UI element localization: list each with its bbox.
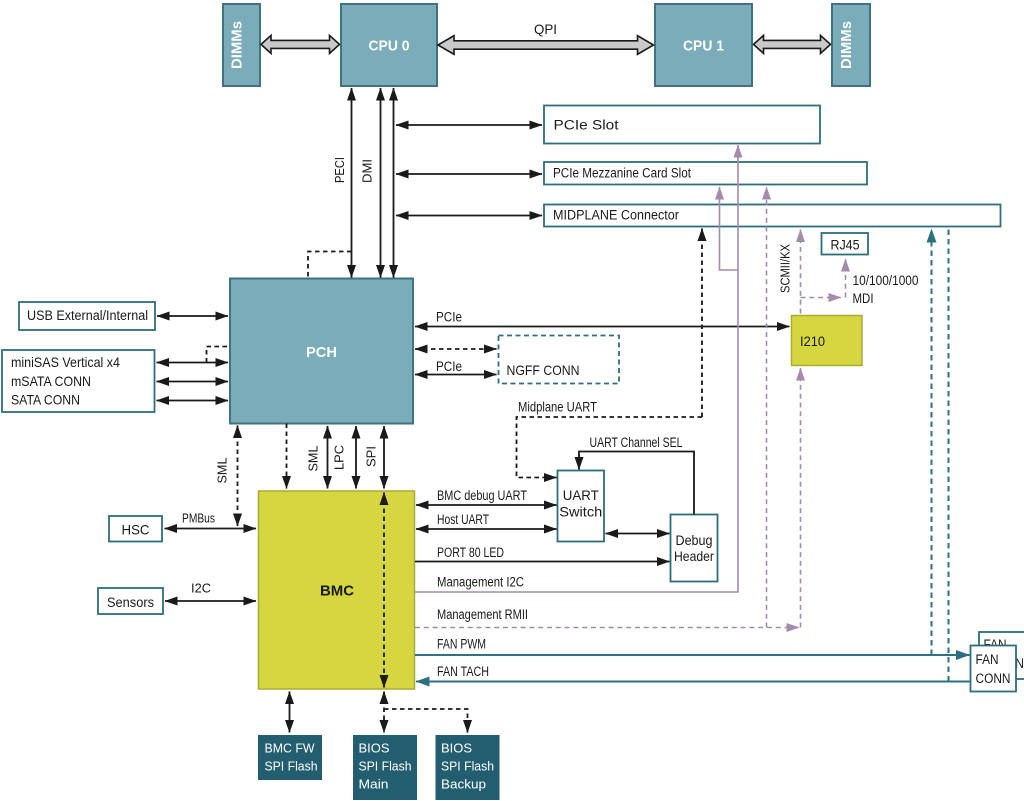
wire SML PCH-BMC — [306, 426, 328, 489]
svg-text:USB External/Internal: USB External/Internal — [27, 308, 148, 323]
wire SPI PCH-BMC — [364, 426, 385, 489]
wire SPI dashed BMC to BIOS flashes — [384, 692, 468, 733]
wire dashed PECI branch into PCH — [308, 252, 352, 278]
block HSC — [109, 516, 162, 542]
svg-text:I2C: I2C — [191, 581, 211, 596]
svg-text:SML: SML — [215, 458, 230, 484]
wire SML dashed PCH to PMBus node — [215, 426, 238, 527]
block PCIe Slot — [544, 106, 820, 144]
wire PCIe PCH-I210 — [415, 310, 790, 327]
svg-text:PORT 80 LED: PORT 80 LED — [437, 545, 504, 560]
wire FAN dashed to MIDPLANE 1 (teal) — [931, 229, 933, 655]
wire LPC PCH-BMC — [332, 426, 357, 489]
wire PCIe to Mezzanine slot — [396, 173, 542, 175]
svg-text:Main: Main — [359, 777, 389, 792]
wire UART Switch - Debug Header — [606, 533, 670, 535]
wire PCIe to PCIe Slot — [396, 124, 542, 126]
svg-text:BMC debug UART: BMC debug UART — [437, 488, 527, 503]
svg-text:Debug: Debug — [676, 532, 713, 548]
svg-text:PECI: PECI — [332, 157, 347, 183]
block miniSAS mSATA SATA CONN — [2, 350, 155, 412]
svg-text:DMI: DMI — [360, 159, 375, 183]
svg-text:FAN TACH: FAN TACH — [437, 664, 489, 679]
svg-text:BIOS: BIOS — [441, 741, 472, 756]
wire QPI CPU0-CPU1 (thick gray) — [438, 21, 654, 54]
block BMC FW SPI Flash — [258, 735, 322, 780]
svg-text:SATA CONN: SATA CONN — [11, 392, 80, 408]
block DIMMs right — [832, 4, 870, 86]
wire BMC debug UART — [416, 488, 557, 505]
wire dashed PCH-NGFF — [415, 348, 497, 350]
wire memory bus DIMMs-CPU0 (thick gray) — [261, 35, 340, 53]
svg-text:Sensors: Sensors — [107, 594, 154, 610]
wire Management RMII (mauve dashed) — [415, 187, 801, 628]
wire PORT 80 LED — [415, 545, 670, 562]
block CPU 1 — [655, 4, 752, 86]
wire PCIe PCH-NGFF — [415, 359, 497, 375]
svg-text:SPI: SPI — [364, 446, 379, 467]
block DIMMs left — [223, 4, 260, 86]
svg-text:DIMMs: DIMMs — [229, 21, 246, 69]
block BIOS SPI Flash Backup — [436, 735, 500, 800]
block BMC — [259, 491, 415, 689]
wire Management I2C (mauve) — [415, 145, 738, 592]
svg-text:CPU 0: CPU 0 — [369, 38, 410, 55]
svg-text:PCIe: PCIe — [436, 359, 462, 374]
wire SCMII/KX I210-MIDPLANE (mauve dashed) — [778, 230, 801, 314]
svg-text:Midplane UART: Midplane UART — [518, 400, 597, 415]
wire dashed PCH-BMC — [286, 424, 288, 489]
svg-text:Management RMII: Management RMII — [437, 607, 528, 622]
block PCIe Mezzanine Card Slot — [544, 162, 867, 185]
block BIOS SPI Flash Main — [353, 735, 417, 800]
svg-text:NGFF CONN: NGFF CONN — [507, 362, 580, 378]
wire FAN TACH (teal) — [416, 664, 971, 682]
block NGFF CONN — [499, 336, 620, 384]
block USB External/Internal — [19, 302, 155, 330]
svg-text:mSATA CONN: mSATA CONN — [11, 373, 91, 389]
svg-text:Management I2C: Management I2C — [437, 575, 524, 590]
wire miniSAS-PCH line 2 — [157, 381, 229, 383]
svg-text:Header: Header — [674, 548, 714, 564]
svg-text:Backup: Backup — [441, 777, 486, 792]
block RJ45 — [822, 233, 869, 255]
svg-text:PCIe Slot: PCIe Slot — [554, 118, 619, 133]
wire PCIe to MIDPLANE connector — [396, 215, 542, 217]
svg-text:HSC: HSC — [122, 522, 150, 538]
wire dashed miniSAS branch into PCH — [207, 347, 231, 363]
wire PMBus HSC-BMC — [165, 511, 257, 529]
svg-text:BMC FW: BMC FW — [265, 741, 316, 756]
svg-text:PCH: PCH — [306, 344, 337, 361]
wire DMI line 1 CPU0-PCH — [360, 88, 381, 278]
svg-text:Host UART: Host UART — [437, 512, 489, 527]
wire DMI line 2 CPU0-PCH — [393, 88, 395, 278]
block I210 — [792, 316, 863, 366]
wire Host UART — [416, 512, 557, 529]
svg-text:MIDPLANE Connector: MIDPLANE Connector — [553, 208, 679, 223]
wire memory bus CPU1-DIMMs (thick gray) — [754, 35, 831, 53]
svg-text:10/100/1000: 10/100/1000 — [853, 273, 919, 288]
svg-text:PCIe: PCIe — [436, 310, 462, 325]
block UART Switch — [558, 471, 605, 542]
svg-text:CONN: CONN — [976, 671, 1011, 686]
wire MDI to RJ45 (mauve dashed) — [801, 259, 919, 306]
wire UART Channel SEL — [579, 435, 694, 515]
svg-text:FAN: FAN — [976, 652, 999, 667]
block MIDPLANE Connector — [544, 205, 1001, 227]
block Debug Header — [671, 515, 718, 582]
svg-text:Switch: Switch — [559, 504, 602, 520]
wire miniSAS-PCH line 3 — [157, 400, 229, 402]
svg-text:SCMII/KX: SCMII/KX — [778, 244, 793, 293]
block CPU 0 — [341, 4, 437, 86]
block FAN CONN back — [979, 632, 1024, 679]
wire BMC to BMC FW SPI Flash — [289, 692, 291, 733]
svg-text:MDI: MDI — [853, 291, 874, 306]
svg-text:SPI Flash: SPI Flash — [441, 759, 494, 774]
wire FAN PWM (teal) — [415, 637, 970, 656]
wire USB-PCH — [157, 315, 228, 317]
svg-text:BMC: BMC — [320, 583, 354, 600]
wire PECI CPU0-PCH — [332, 88, 352, 278]
svg-text:CPU 1: CPU 1 — [683, 38, 724, 55]
wire I2C Sensors-BMC — [165, 581, 256, 602]
block Sensors — [98, 588, 163, 614]
wire miniSAS-PCH line 1 — [157, 362, 229, 364]
wire FAN dashed to MIDPLANE 2 (teal) — [948, 228, 950, 682]
svg-text:miniSAS Vertical x4: miniSAS Vertical x4 — [11, 354, 120, 370]
svg-text:PCIe Mezzanine Card Slot: PCIe Mezzanine Card Slot — [553, 166, 691, 181]
svg-text:I210: I210 — [800, 333, 825, 349]
block FAN CONN front — [971, 646, 1017, 692]
svg-text:SPI Flash: SPI Flash — [265, 759, 318, 774]
svg-text:BIOS: BIOS — [359, 741, 390, 756]
svg-text:UART Channel SEL: UART Channel SEL — [590, 435, 683, 450]
svg-text:SPI Flash: SPI Flash — [359, 759, 412, 774]
svg-text:RJ45: RJ45 — [831, 237, 860, 253]
svg-text:QPI: QPI — [534, 21, 557, 37]
svg-text:DIMMs: DIMMs — [838, 21, 855, 69]
block PCH — [230, 279, 413, 424]
svg-text:PMBus: PMBus — [182, 511, 215, 526]
svg-text:SML: SML — [306, 446, 321, 472]
wire SPI dashed through BMC — [383, 493, 385, 688]
svg-text:LPC: LPC — [332, 445, 347, 470]
svg-text:UART: UART — [563, 487, 599, 503]
wire Midplane UART dashed — [517, 229, 703, 478]
svg-text:FAN PWM: FAN PWM — [437, 637, 486, 652]
